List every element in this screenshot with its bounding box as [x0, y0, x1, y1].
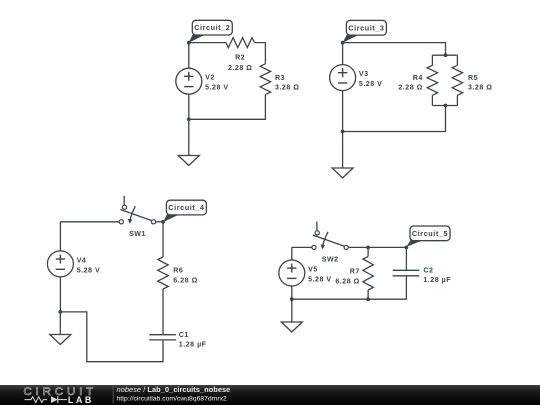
wire (C4 to ground): [59, 312, 61, 335]
wire (C2 top stub): [405, 247, 407, 270]
wire (C3 to ground): [342, 132, 344, 169]
wire (C2 top left): [189, 42, 226, 44]
svg-text:R3: R3: [275, 74, 285, 82]
capacitor C1: [149, 331, 206, 349]
voltage source V4: [47, 222, 100, 312]
voltage source V3: [330, 43, 383, 132]
ground (circuit 5): [281, 322, 302, 332]
wire (C5 to ground): [291, 299, 293, 322]
wire (R6 to C1): [162, 289, 164, 335]
svg-text:V4: V4: [77, 256, 87, 264]
svg-text:2.28 Ω: 2.28 Ω: [228, 64, 252, 72]
node C3 bottom junction: [341, 130, 345, 134]
svg-text:R6: R6: [173, 266, 183, 274]
ground (circuit 3): [332, 168, 353, 178]
switch SW1: [119, 196, 155, 238]
svg-text:SW1: SW1: [129, 230, 146, 238]
wire (SW1 to node): [156, 221, 163, 223]
footer divider: [112, 386, 114, 404]
ground (circuit 2): [178, 156, 199, 166]
voltage source V2: [176, 43, 229, 120]
svg-text:5.28 V: 5.28 V: [359, 80, 383, 88]
wire (C5 top left): [292, 246, 312, 248]
label Circuit_2: [189, 20, 233, 42]
node C4 label anchor: [161, 220, 165, 224]
wire (SW2 to C2): [348, 246, 406, 248]
svg-text:SW2: SW2: [322, 255, 339, 263]
wire (R7 bottom stub): [367, 290, 369, 299]
svg-text:3.28 Ω: 3.28 Ω: [275, 83, 299, 91]
CircuitLab logo: [24, 386, 98, 405]
svg-text:Circuit_5: Circuit_5: [412, 229, 448, 238]
resistor R6: [158, 257, 198, 289]
resistor R5: [452, 65, 492, 95]
voltage source V5: [279, 247, 332, 299]
wire (C4 bottom return): [60, 312, 163, 362]
wire (C2 bottom): [189, 95, 266, 120]
label Circuit_5: [406, 226, 450, 247]
node C3 parallel bottom junction: [444, 104, 448, 108]
wire (R7 top stub): [367, 247, 369, 256]
node C5 R7 bottom junction: [366, 297, 370, 301]
svg-text:V2: V2: [205, 74, 215, 82]
wire (C3 parallel top bar): [432, 54, 457, 56]
resistor R3: [260, 64, 299, 95]
svg-text:3.28 Ω: 3.28 Ω: [468, 83, 492, 91]
label Circuit_3: [343, 20, 387, 42]
svg-text:Circuit_3: Circuit_3: [348, 23, 384, 32]
svg-text:V3: V3: [359, 70, 369, 78]
wire (node to R6): [162, 222, 164, 257]
svg-text:V5: V5: [308, 266, 318, 274]
wire (C5 bottom): [292, 276, 407, 299]
capacitor C2: [393, 267, 452, 285]
node C4 bottom junction: [58, 310, 62, 314]
wire (R5 bottom stub): [456, 95, 458, 105]
wire (C3 bottom): [343, 106, 446, 132]
svg-text:R7: R7: [350, 267, 360, 275]
svg-text:LAB: LAB: [68, 395, 94, 405]
svg-text:http://circuitlab.com/cwu8q687: http://circuitlab.com/cwu8q687dmrx2: [117, 395, 228, 402]
resistor R4: [398, 65, 437, 95]
svg-text:R2: R2: [235, 54, 245, 62]
label Circuit_4: [163, 200, 206, 222]
wire (R4 bottom stub): [431, 95, 433, 105]
svg-text:6.28 Ω: 6.28 Ω: [335, 277, 359, 285]
node C5 R7 top junction: [366, 246, 370, 250]
svg-text:Circuit_2: Circuit_2: [194, 23, 230, 32]
wire (C2 to ground): [188, 119, 190, 155]
svg-text:5.28 V: 5.28 V: [205, 84, 229, 92]
wire (R5 top stub): [456, 55, 458, 65]
svg-text:Circuit_4: Circuit_4: [168, 203, 205, 212]
node C5 label anchor: [405, 246, 409, 250]
svg-text:C1: C1: [179, 331, 189, 339]
svg-text:5.28 V: 5.28 V: [77, 266, 101, 274]
svg-text:1.28 µF: 1.28 µF: [423, 276, 451, 284]
svg-text:C2: C2: [423, 267, 433, 275]
svg-text:nobese / Lab_0_circuits_nobese: nobese / Lab_0_circuits_nobese: [117, 385, 231, 394]
wire (C3 top): [343, 43, 446, 56]
node C3 parallel top junction: [444, 53, 448, 57]
svg-text:5.28 V: 5.28 V: [308, 275, 332, 283]
svg-text:R5: R5: [468, 74, 478, 82]
ground (circuit 4): [50, 335, 71, 345]
svg-text:1.28 µF: 1.28 µF: [179, 340, 207, 348]
node C5 bottom junction: [290, 297, 294, 301]
node C2 label anchor: [187, 41, 191, 45]
wire (C3 parallel bottom bar): [432, 105, 457, 107]
svg-text:R4: R4: [413, 74, 423, 82]
resistor R7: [335, 257, 373, 291]
node C2 bottom junction: [187, 117, 191, 121]
wire (R4 top stub): [431, 55, 433, 65]
node C3 label anchor: [341, 41, 345, 45]
wire (C4 top left): [60, 221, 119, 223]
svg-text:2.28 Ω: 2.28 Ω: [398, 83, 422, 91]
svg-text:6.28 Ω: 6.28 Ω: [173, 276, 197, 284]
wire (C2 top right corner): [255, 43, 266, 64]
switch SW2: [312, 222, 348, 264]
resistor R2: [226, 38, 255, 72]
